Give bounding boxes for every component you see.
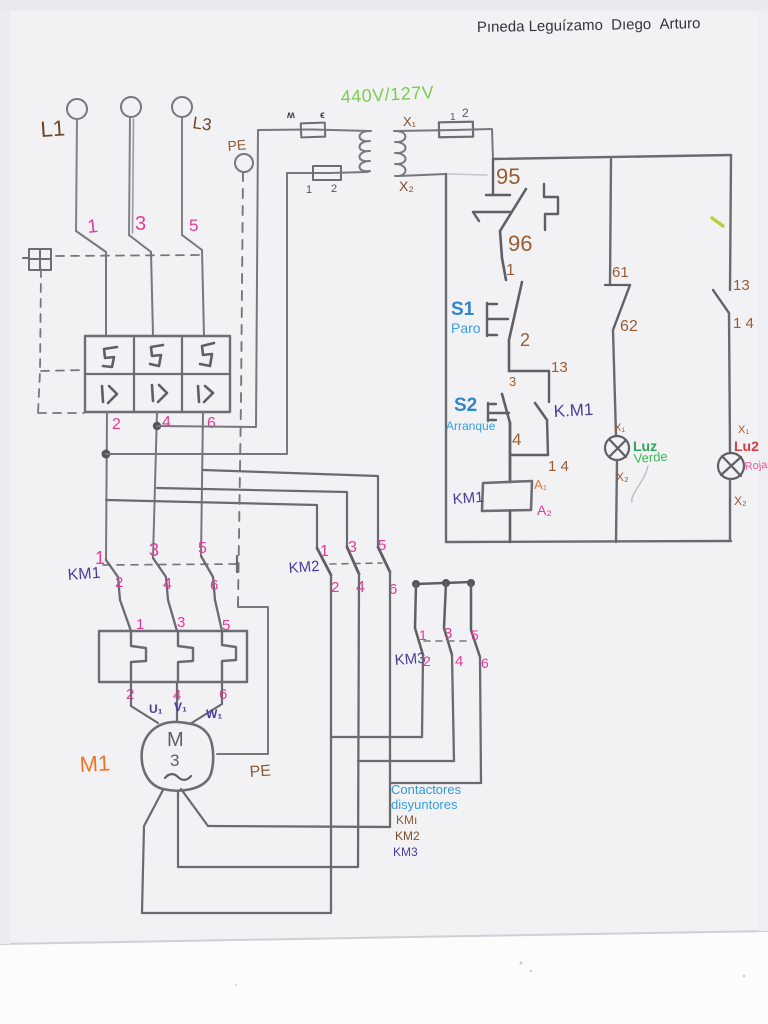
svg-text:X₂: X₂	[399, 178, 414, 194]
svg-text:KM1: KM1	[452, 489, 484, 508]
wire L3 down	[181, 117, 183, 235]
wire lamp LU1 to bottom rail	[616, 460, 617, 542]
terminal L1	[67, 99, 87, 119]
svg-text:M: M	[167, 729, 184, 751]
stray pencil mark under Verde	[632, 466, 648, 502]
svg-text:KM3: KM3	[394, 650, 426, 669]
KM3 pole1 contact	[415, 584, 423, 655]
label X2 red lamp	[734, 494, 747, 508]
svg-text:6: 6	[481, 655, 489, 671]
KM3 star dot 1	[412, 580, 420, 588]
label 96	[508, 231, 532, 256]
label 13 control	[551, 359, 568, 376]
KM1 pole2 contact	[153, 558, 177, 631]
svg-text:Contactores: Contactores	[391, 782, 462, 797]
wire L2 down (doubled stroke)	[129, 117, 134, 235]
header handwriting	[477, 15, 701, 36]
KM3 star dot 3	[467, 579, 475, 587]
overload NC contact 95-96	[473, 189, 526, 231]
svg-text:3: 3	[149, 540, 159, 560]
junction 3-13 wire	[509, 370, 549, 372]
yellow highlight tick	[712, 218, 723, 226]
wire 96 to S1	[500, 231, 506, 280]
control bottom rail	[446, 541, 731, 542]
KM3 out3 wire down	[480, 657, 481, 783]
switch linkage dashed	[56, 255, 202, 256]
fuse F3 secondary	[439, 122, 473, 138]
wire rung KM2-KM3 pole3	[390, 782, 481, 784]
label PE bottom	[249, 763, 271, 781]
fuse F2 primary bottom	[313, 166, 341, 180]
label X1 red lamp	[738, 424, 749, 436]
wire tap phase1 to KM2 pole1	[106, 500, 317, 548]
KM1 aux branch upper wire	[548, 371, 550, 402]
label KM1 list	[396, 813, 417, 827]
KM2 out2 wire down	[358, 574, 359, 867]
motor letter M	[167, 729, 184, 751]
svg-text:M1: M1	[79, 750, 111, 777]
KM3 numbers top	[419, 625, 479, 643]
wire pole3 to breaker	[202, 250, 204, 336]
svg-text:1: 1	[86, 216, 99, 238]
PE dashed wire	[238, 172, 243, 604]
fuse F2 terminal numbers	[306, 183, 337, 196]
KM2 numbers top	[320, 537, 386, 560]
svg-text:5: 5	[471, 627, 479, 643]
wire overload out1 to motor U1	[131, 682, 158, 723]
svg-text:13: 13	[551, 359, 568, 376]
KM2 pole1 contact	[317, 548, 331, 575]
wire motor lead right to KM2 out3	[208, 826, 390, 827]
svg-text:V₁: V₁	[174, 700, 187, 714]
svg-text:5: 5	[378, 537, 386, 554]
NC contact 61-62	[605, 285, 630, 330]
KM2 out1 wire down	[330, 575, 332, 913]
label 14 control	[548, 458, 569, 475]
label KM3	[394, 650, 426, 669]
wire coil to bottom rail	[509, 511, 512, 542]
svg-text:S1: S1	[451, 299, 475, 320]
label X1 secondary	[403, 114, 417, 129]
thermal trip symbol cell 1	[103, 347, 117, 367]
wire rung KM2-KM3 pole1	[331, 736, 422, 738]
svg-text:3: 3	[509, 374, 516, 389]
overload thermal bracket	[544, 184, 558, 230]
svg-text:2: 2	[423, 653, 431, 669]
label X2 secondary	[399, 178, 414, 194]
wire S2 to coil	[509, 423, 512, 482]
KM2 pole3 contact	[378, 547, 390, 572]
KM2 pole2 contact	[347, 547, 359, 574]
svg-text:KM2: KM2	[395, 829, 420, 843]
label 3 (pink, pole 2)	[135, 213, 146, 235]
overload heater element 2	[178, 631, 193, 682]
label PE top	[227, 136, 247, 154]
label U1	[149, 702, 163, 716]
wire motor lead mid to KM2 out2	[178, 866, 358, 868]
label 6 (pink, breaker out 3)	[207, 415, 216, 432]
KM2 linkage dashed	[330, 563, 382, 564]
svg-text:2: 2	[462, 106, 469, 120]
wire breaker out 3 down to KM1	[201, 412, 203, 556]
svg-text:6: 6	[219, 686, 227, 703]
svg-text:W₁: W₁	[206, 707, 222, 721]
svg-text:5: 5	[198, 540, 207, 557]
svg-text:2: 2	[331, 183, 337, 195]
svg-text:X₁: X₁	[738, 424, 749, 436]
pushbutton S2 (NO)	[488, 394, 510, 423]
svg-text:ʍ: ʍ	[286, 110, 295, 121]
wire overload out3 to motor W1	[190, 682, 222, 724]
KM1 pole numbers bottom	[115, 574, 218, 594]
svg-text:L1: L1	[40, 115, 66, 142]
label S1	[451, 299, 475, 320]
svg-text:6: 6	[207, 415, 216, 432]
svg-text:X₂: X₂	[734, 494, 747, 508]
label A1	[534, 477, 548, 492]
label 3 control	[509, 374, 516, 389]
svg-text:K.M1: K.M1	[553, 400, 594, 421]
svg-text:KMı: KMı	[396, 813, 417, 827]
junction dot phase2	[153, 422, 161, 430]
fuse F3 terminal numbers	[450, 106, 469, 123]
indicator lamp LU2 (red)	[718, 453, 744, 479]
svg-text:1: 1	[450, 112, 456, 123]
fuse F1 primary top	[301, 123, 325, 138]
svg-text:Paro: Paro	[451, 320, 481, 336]
label KM2	[288, 558, 320, 577]
label 14 right	[733, 315, 754, 332]
svg-text:1: 1	[306, 184, 312, 196]
svg-text:Lu2: Lu2	[734, 438, 759, 454]
KM3 linkage dashed	[424, 640, 468, 642]
wire pole1 to breaker	[105, 252, 107, 336]
terminal PE	[235, 154, 253, 172]
svg-text:96: 96	[508, 231, 532, 256]
KM1 pole numbers top	[95, 540, 207, 568]
svg-text:95: 95	[496, 164, 520, 189]
svg-text:1: 1	[506, 262, 515, 279]
circuit breaker QF1 box	[85, 336, 230, 412]
overload numbers bottom	[126, 686, 227, 704]
svg-text:1: 1	[136, 616, 144, 633]
label KM1 main	[67, 565, 101, 584]
KM3 star bar	[416, 582, 471, 584]
label 1 control	[506, 262, 515, 279]
manual handle symbol	[23, 249, 51, 270]
thermal overload relay F4 box	[99, 631, 247, 682]
overload heater element 3	[222, 631, 236, 682]
label X1 green lamp	[614, 422, 625, 434]
label 61	[612, 264, 629, 281]
PE solid wire to motor	[217, 602, 268, 754]
control top rail	[493, 155, 731, 159]
svg-text:ϵ: ϵ	[320, 110, 325, 121]
motor lead right	[181, 789, 208, 826]
handle linkage dashed horizontal lower	[38, 412, 84, 414]
KM3 pole2 contact	[444, 583, 452, 655]
junction 4-14 wire	[510, 454, 548, 456]
label S2	[454, 395, 477, 416]
wire motor lead left to KM2 out1	[142, 912, 331, 914]
label disyuntores	[391, 797, 458, 812]
label Lu2 Roja	[734, 438, 768, 473]
svg-text:U₁: U₁	[149, 702, 163, 716]
wire top rail to overload contact	[492, 159, 494, 195]
wire tap phase1 to fuse F2	[106, 173, 330, 454]
svg-text:A₁: A₁	[534, 477, 548, 492]
label KM2 list	[395, 829, 420, 843]
wire contact to lamp LU2	[729, 313, 730, 453]
transformer T1 primary winding	[360, 131, 372, 172]
label Paro	[451, 320, 481, 336]
label Luz Verde	[633, 438, 668, 466]
svg-text:KM3: KM3	[393, 845, 418, 859]
label 13 right	[733, 277, 750, 294]
wire breaker out 2 down to KM1	[153, 412, 157, 558]
svg-text:6: 6	[210, 577, 218, 594]
svg-text:1 4: 1 4	[548, 458, 569, 475]
wire pole2 to breaker	[151, 252, 153, 336]
svg-text:1 4: 1 4	[733, 315, 754, 332]
label 440V/127V	[340, 82, 434, 107]
KM1 pole1 contact	[106, 560, 131, 631]
svg-text:X₁: X₁	[614, 422, 625, 434]
magnetic trip symbol cell 1	[102, 386, 117, 403]
wire breaker out 1 down to KM1	[106, 412, 107, 560]
motor tilde	[165, 774, 191, 780]
thermal trip symbol cell 2	[150, 345, 163, 366]
svg-text:L3: L3	[191, 113, 212, 134]
label KM1 coil	[452, 489, 484, 508]
magnetic trip symbol cell 3	[198, 386, 213, 402]
KM3 pole3 contact	[471, 583, 480, 657]
contactor coil KM1	[482, 481, 532, 511]
motor lead left	[142, 790, 163, 913]
svg-text:X₁: X₁	[403, 114, 417, 129]
svg-text:3: 3	[177, 614, 185, 631]
svg-text:4: 4	[163, 576, 172, 593]
label 4 control	[512, 430, 521, 449]
wire tap phase2 to fuse F1	[157, 130, 312, 428]
svg-text:5: 5	[189, 216, 198, 235]
KM1 linkage dashed	[103, 564, 237, 565]
NO contact 13-14 right	[713, 290, 729, 313]
svg-text:S2: S2	[454, 395, 477, 416]
terminal L3	[172, 97, 192, 117]
svg-text:2: 2	[112, 416, 121, 433]
magnetic trip symbol cell 2	[152, 385, 167, 402]
label L1	[40, 115, 66, 142]
svg-text:1: 1	[419, 627, 427, 643]
KM2 out3 wire down	[389, 572, 391, 827]
disconnect switch Q1 blade pole 3	[182, 235, 202, 250]
svg-text:PE: PE	[227, 136, 247, 154]
red lamp branch upper wire	[730, 155, 731, 290]
svg-text:4: 4	[455, 653, 463, 670]
svg-text:KM2: KM2	[288, 558, 320, 577]
terminal L2	[121, 97, 141, 117]
wire tap phase3 to KM2 pole3	[203, 470, 378, 547]
wire rung KM2-KM3 pole2	[358, 760, 454, 762]
label 5 (pink, pole 3)	[189, 216, 198, 235]
pushbutton S1 (NC)	[487, 282, 522, 340]
label 4 (pink, breaker out 2)	[162, 414, 171, 431]
handle linkage dashed vertical	[38, 269, 41, 413]
svg-text:4: 4	[356, 579, 365, 596]
KM3 out2 wire down	[452, 655, 454, 761]
wire tap phase2 to KM2 pole2	[157, 488, 347, 547]
KM2 numbers bottom	[331, 579, 397, 598]
KM1 pole3 contact	[201, 556, 222, 631]
wire S1 to junction	[508, 340, 511, 371]
svg-text:3: 3	[170, 751, 179, 770]
svg-text:61: 61	[612, 264, 629, 281]
overload heater element 1	[131, 631, 146, 682]
indicator lamp LU1 (green)	[605, 436, 629, 460]
faint stray line	[447, 174, 487, 175]
transformer T1 secondary winding	[394, 131, 406, 176]
overload numbers top	[136, 614, 230, 634]
svg-text:2: 2	[115, 574, 123, 591]
KM3 numbers bottom	[423, 653, 489, 671]
scanner specks below paper edge	[235, 962, 746, 987]
label Arranque	[446, 419, 496, 433]
svg-text:5: 5	[222, 617, 230, 634]
label L3	[191, 113, 212, 134]
wire overload out2 to motor V1	[176, 682, 178, 722]
disconnect switch Q1 blade pole 2	[129, 235, 151, 252]
wire 62 to lamp LU1	[613, 330, 616, 436]
control left rail	[445, 174, 447, 542]
wire fuse F1 to primary	[312, 130, 370, 132]
svg-text:3: 3	[348, 539, 357, 556]
svg-text:1: 1	[95, 548, 105, 568]
svg-text:2: 2	[331, 579, 339, 596]
KM3 out1 wire down	[422, 655, 423, 737]
svg-text:Verde: Verde	[633, 449, 668, 466]
label 1 (pink, pole 1)	[86, 216, 99, 238]
svg-text:2: 2	[520, 330, 530, 350]
fuse F1 terminal marks	[286, 110, 325, 121]
svg-text:A₂: A₂	[537, 502, 552, 518]
label 2 (pink, breaker out 1)	[112, 416, 121, 433]
svg-text:13: 13	[733, 277, 750, 294]
wire fuse F2 to primary	[330, 172, 367, 173]
svg-text:4: 4	[162, 414, 171, 431]
KM1 aux NO contact 13-14	[535, 403, 548, 455]
svg-text:disyuntores: disyuntores	[391, 797, 458, 812]
label 2 control	[520, 330, 530, 350]
label W1	[206, 707, 222, 721]
label 62	[620, 318, 638, 335]
label KM3 list	[393, 845, 418, 859]
green lamp branch upper wire	[610, 159, 611, 285]
svg-text:Roja: Roja	[744, 459, 768, 473]
svg-text:Arranque: Arranque	[446, 419, 496, 433]
KM1 4th pole tick	[236, 556, 238, 572]
wire lamp LU2 to bottom rail	[729, 479, 731, 541]
wire fuse F3 to control rail	[455, 129, 493, 159]
wire X1 to fuse F3	[396, 130, 455, 131]
motor number 3	[170, 751, 179, 770]
KM3 star dot 2	[442, 579, 450, 587]
svg-text:3: 3	[135, 213, 146, 235]
svg-text:PE: PE	[249, 763, 271, 781]
label X2 green lamp	[616, 470, 629, 484]
svg-text:62: 62	[620, 318, 638, 335]
label V1	[174, 700, 187, 714]
svg-text:3: 3	[444, 625, 452, 642]
label A2	[537, 502, 552, 518]
label KM1 aux	[553, 400, 594, 421]
motor lead middle	[177, 791, 179, 867]
svg-text:1: 1	[320, 543, 329, 560]
label Contactores	[391, 782, 462, 797]
motor M1 circle	[142, 722, 214, 791]
label 95	[496, 164, 520, 189]
junction dot phase1	[102, 450, 111, 459]
thermal trip symbol cell 3	[200, 343, 214, 366]
handle linkage dashed horizontal upper	[41, 370, 84, 371]
svg-text:4: 4	[512, 430, 521, 449]
label M1	[79, 750, 111, 777]
disconnect switch Q1 blade pole 1	[76, 231, 106, 252]
wire X2 to left control rail	[399, 174, 446, 176]
wire L1 down	[76, 119, 77, 231]
